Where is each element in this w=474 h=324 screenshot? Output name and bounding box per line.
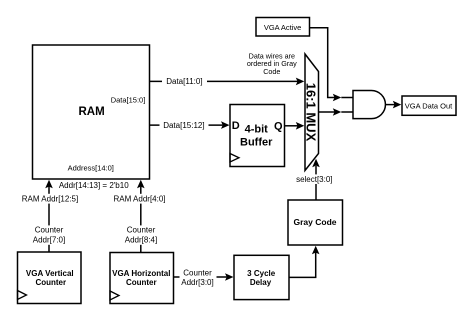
svg-text:3 Cycle: 3 Cycle — [247, 269, 276, 278]
svg-text:16:1 MUX: 16:1 MUX — [303, 83, 318, 142]
svg-text:Buffer: Buffer — [240, 137, 273, 149]
svg-text:VGA Active: VGA Active — [264, 23, 302, 32]
svg-text:D: D — [232, 120, 240, 132]
svg-text:Addr[14:13] = 2'b10: Addr[14:13] = 2'b10 — [59, 181, 129, 190]
svg-text:Delay: Delay — [250, 278, 272, 287]
svg-text:Gray Code: Gray Code — [294, 217, 337, 227]
svg-text:RAM: RAM — [78, 106, 104, 118]
svg-text:RAM Addr[4:0]: RAM Addr[4:0] — [113, 195, 165, 204]
svg-text:Code: Code — [263, 67, 280, 76]
svg-text:Counter: Counter — [35, 278, 66, 287]
svg-text:4-bit: 4-bit — [245, 123, 269, 135]
svg-text:Addr[8:4]: Addr[8:4] — [125, 235, 157, 244]
svg-text:Address[14:0]: Address[14:0] — [68, 164, 114, 173]
svg-text:Addr[7:0]: Addr[7:0] — [33, 235, 65, 244]
svg-text:RAM Addr[12:5]: RAM Addr[12:5] — [22, 195, 78, 204]
svg-text:Counter: Counter — [126, 278, 157, 287]
svg-text:Counter: Counter — [183, 268, 212, 277]
svg-text:Q: Q — [274, 120, 283, 132]
svg-text:Data[15:0]: Data[15:0] — [111, 96, 146, 105]
svg-text:Counter: Counter — [127, 226, 156, 235]
svg-text:VGA Horizontal: VGA Horizontal — [112, 269, 170, 278]
svg-text:Data[15:12]: Data[15:12] — [163, 121, 204, 130]
svg-text:VGA Data Out: VGA Data Out — [405, 102, 453, 111]
svg-text:Counter: Counter — [35, 226, 64, 235]
svg-text:VGA Vertical: VGA Vertical — [26, 269, 74, 278]
svg-text:Addr[3:0]: Addr[3:0] — [181, 278, 213, 287]
svg-text:select[3:0]: select[3:0] — [296, 175, 332, 184]
svg-text:Data[11:0]: Data[11:0] — [166, 77, 202, 86]
